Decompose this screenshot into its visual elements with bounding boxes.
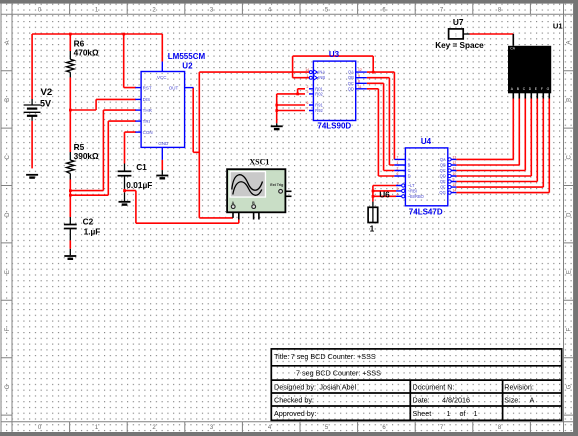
svg-text:7 seg BCD Counter: +SSS: 7 seg BCD Counter: +SSS xyxy=(296,369,381,378)
svg-text:7: 7 xyxy=(397,156,399,160)
svg-text:QD: QD xyxy=(348,86,354,91)
svg-text:F: F xyxy=(5,327,11,331)
svg-text:C: C xyxy=(408,168,411,173)
svg-text:QB: QB xyxy=(440,163,446,168)
svg-text:14: 14 xyxy=(453,189,457,193)
svg-text:THR: THR xyxy=(143,108,153,113)
svg-text:Approved by:: Approved by: xyxy=(274,409,316,418)
svg-text:DIS: DIS xyxy=(143,97,151,102)
svg-text:C2: C2 xyxy=(83,217,94,227)
svg-text:LM555CM: LM555CM xyxy=(168,52,206,61)
svg-text:QF: QF xyxy=(440,185,446,190)
svg-text:~LT: ~LT xyxy=(408,183,415,188)
svg-text:6: 6 xyxy=(307,101,309,105)
svg-text:~RBI: ~RBI xyxy=(408,188,417,193)
svg-text:B: B xyxy=(252,201,255,205)
svg-text:1: 1 xyxy=(455,33,458,39)
svg-text:F: F xyxy=(541,87,543,91)
svg-text:QB: QB xyxy=(348,75,354,80)
svg-text:C1: C1 xyxy=(136,162,147,172)
svg-text:470kΩ: 470kΩ xyxy=(74,47,99,57)
svg-text:1: 1 xyxy=(397,161,399,165)
svg-text:D: D xyxy=(5,212,11,217)
svg-text:8: 8 xyxy=(358,79,360,83)
svg-text:E: E xyxy=(5,270,11,274)
svg-text:B: B xyxy=(5,98,11,102)
svg-text:Revision:: Revision: xyxy=(504,382,534,391)
svg-text:Title:: Title: xyxy=(274,352,289,361)
svg-text:RST: RST xyxy=(143,85,152,90)
svg-text:12: 12 xyxy=(453,161,457,165)
svg-text:9: 9 xyxy=(358,74,360,78)
svg-text:D: D xyxy=(566,212,572,217)
svg-text:Size:: Size: xyxy=(504,395,520,404)
svg-text:CA: CA xyxy=(510,47,515,51)
svg-text:U4: U4 xyxy=(421,137,432,146)
svg-text:5V: 5V xyxy=(40,98,51,108)
svg-text:Document N:: Document N: xyxy=(413,382,455,391)
svg-text:74LS90D: 74LS90D xyxy=(317,121,351,130)
svg-text:E: E xyxy=(566,270,572,274)
svg-text:F: F xyxy=(566,327,572,331)
svg-text:3: 3 xyxy=(397,182,399,186)
svg-text:C: C xyxy=(566,154,572,159)
svg-text:11: 11 xyxy=(358,85,362,89)
svg-text:390kΩ: 390kΩ xyxy=(74,151,99,161)
svg-text:U7: U7 xyxy=(453,17,464,27)
svg-text:of: of xyxy=(460,409,466,418)
svg-text:A: A xyxy=(232,201,235,205)
svg-text:R92: R92 xyxy=(315,108,323,113)
svg-text:Sheet: Sheet xyxy=(413,409,432,418)
svg-text:2: 2 xyxy=(307,85,309,89)
svg-text:QG: QG xyxy=(439,190,445,195)
svg-text:A: A xyxy=(530,395,535,404)
svg-text:R91: R91 xyxy=(315,103,323,108)
svg-text:OUT: OUT xyxy=(169,85,179,90)
svg-text:1.µF: 1.µF xyxy=(84,227,101,237)
svg-text:10: 10 xyxy=(453,172,457,176)
svg-text:U6: U6 xyxy=(379,190,390,200)
svg-text:G: G xyxy=(5,384,11,389)
svg-text:INB: INB xyxy=(318,75,325,80)
svg-text:14: 14 xyxy=(305,68,309,72)
svg-text:QE: QE xyxy=(440,179,446,184)
svg-text:~BI/RBO: ~BI/RBO xyxy=(408,194,424,199)
svg-text:Checked by:: Checked by: xyxy=(274,395,314,404)
svg-text:2: 2 xyxy=(397,167,399,171)
svg-text:15: 15 xyxy=(453,183,457,187)
svg-text:G: G xyxy=(547,87,550,91)
svg-text:1: 1 xyxy=(307,74,309,78)
svg-text:1: 1 xyxy=(447,409,451,418)
svg-text:6: 6 xyxy=(397,172,399,176)
svg-text:4: 4 xyxy=(397,192,399,196)
svg-text:12: 12 xyxy=(358,68,362,72)
svg-text:Ext Trig: Ext Trig xyxy=(270,183,283,187)
svg-text:QD: QD xyxy=(440,174,446,179)
svg-text:QA: QA xyxy=(440,157,446,162)
svg-text:D: D xyxy=(408,174,411,179)
svg-text:Key = Space: Key = Space xyxy=(435,41,484,50)
svg-text:QC: QC xyxy=(440,168,446,173)
svg-text:13: 13 xyxy=(453,156,457,160)
svg-text:0.01µF: 0.01µF xyxy=(126,180,152,190)
svg-text:CON: CON xyxy=(143,130,153,135)
svg-text:R02: R02 xyxy=(315,91,323,96)
svg-text:U3: U3 xyxy=(329,50,340,59)
svg-text:XSC1: XSC1 xyxy=(249,158,269,167)
svg-text:4/8/2016: 4/8/2016 xyxy=(442,395,470,404)
svg-text:5: 5 xyxy=(397,187,399,191)
svg-text:3: 3 xyxy=(307,90,309,94)
svg-text:1: 1 xyxy=(370,223,375,233)
svg-text:Josiah Abel: Josiah Abel xyxy=(319,382,356,391)
svg-text:QC: QC xyxy=(348,81,354,86)
svg-text:GND: GND xyxy=(158,141,169,146)
svg-text:B: B xyxy=(566,98,572,102)
svg-text:VCC: VCC xyxy=(157,75,167,80)
svg-text:Designed by:: Designed by: xyxy=(274,382,316,391)
svg-text:1: 1 xyxy=(474,409,478,418)
svg-text:A: A xyxy=(408,157,411,162)
svg-text:B: B xyxy=(408,163,411,168)
svg-text:Date:: Date: xyxy=(413,395,430,404)
svg-text:V2: V2 xyxy=(41,87,53,98)
svg-text:QA: QA xyxy=(348,70,354,75)
svg-text:A: A xyxy=(566,40,572,44)
svg-text:G: G xyxy=(566,384,572,389)
svg-text:INA: INA xyxy=(318,70,325,75)
svg-text:C: C xyxy=(5,154,11,159)
svg-text:U1: U1 xyxy=(553,22,563,31)
svg-text:TRI: TRI xyxy=(143,119,150,124)
svg-text:7 seg BCD Counter: +SSS: 7 seg BCD Counter: +SSS xyxy=(291,352,376,361)
svg-text:74LS47D: 74LS47D xyxy=(409,207,443,216)
svg-text:9: 9 xyxy=(453,178,455,182)
svg-text:U2: U2 xyxy=(182,62,193,71)
svg-text:7: 7 xyxy=(307,107,309,111)
svg-text:11: 11 xyxy=(453,167,457,171)
svg-text:A: A xyxy=(5,40,11,44)
